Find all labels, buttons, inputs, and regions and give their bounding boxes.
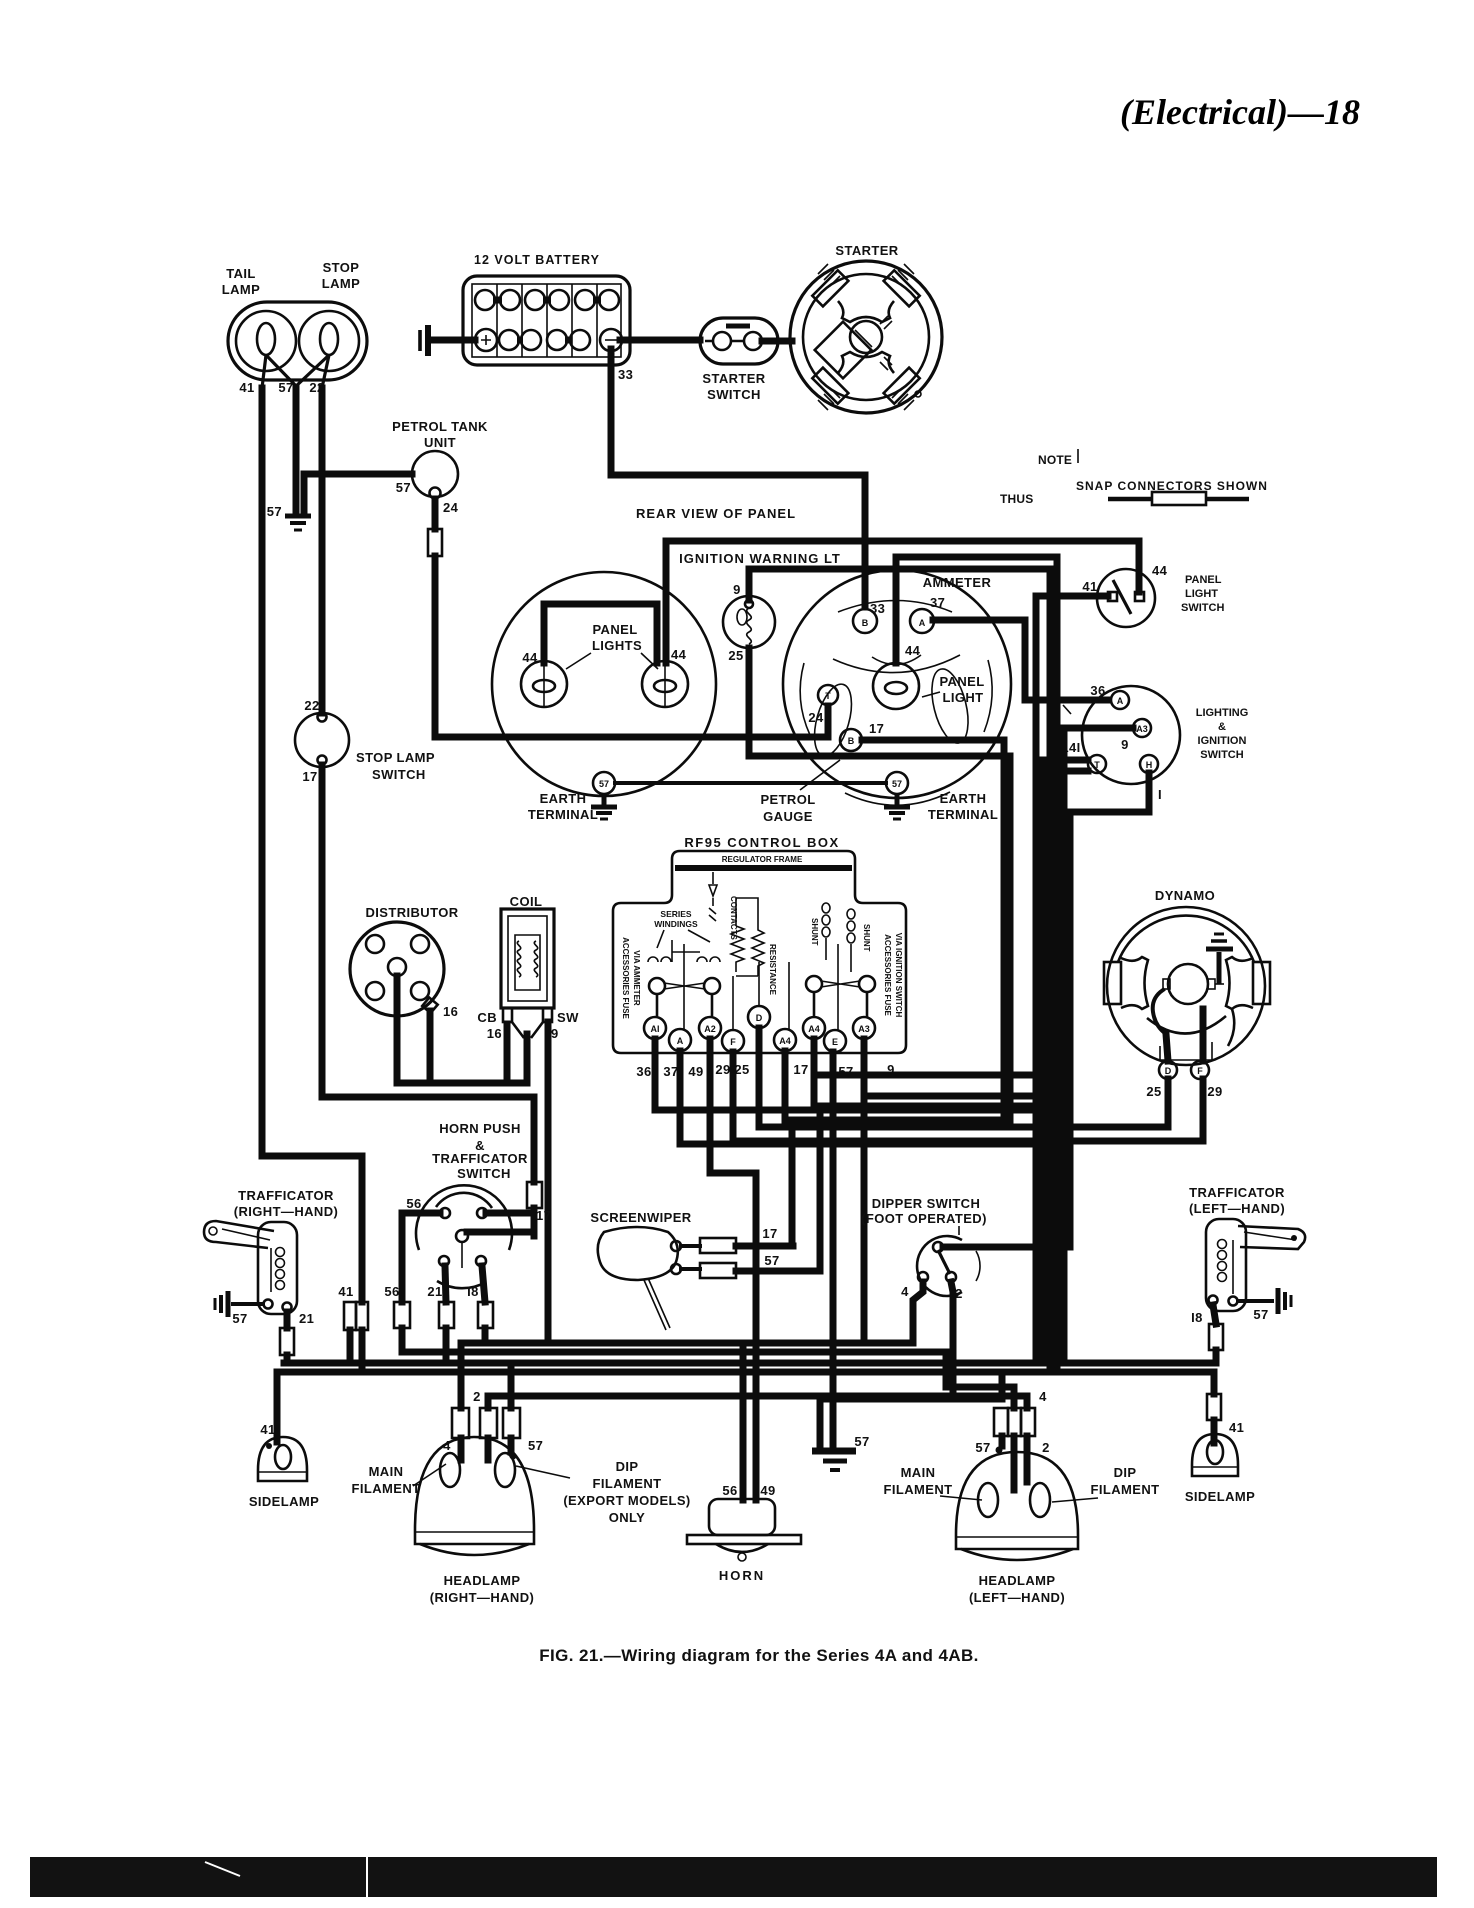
wire E down to earth	[830, 1052, 837, 1450]
headlamp left	[884, 1452, 1160, 1605]
bus 1396	[488, 1396, 1027, 1408]
svg-text:(Electrical)—18: (Electrical)—18	[1120, 92, 1360, 132]
terminal A 37	[910, 595, 945, 633]
svg-text:49: 49	[688, 1064, 703, 1079]
wire A4b down	[814, 1039, 1050, 1106]
svg-text:(LEFT—HAND): (LEFT—HAND)	[1189, 1201, 1285, 1216]
earth terminal right	[884, 772, 998, 822]
control box terminal A	[663, 1029, 691, 1079]
svg-text:36: 36	[636, 1064, 651, 1079]
screenwiper	[590, 1210, 691, 1330]
svg-text:57: 57	[528, 1438, 543, 1453]
svg-text:WINDINGS: WINDINGS	[654, 919, 698, 929]
svg-text:12 VOLT BATTERY: 12 VOLT BATTERY	[474, 253, 600, 267]
svg-text:57: 57	[396, 480, 411, 495]
wire dipper 2	[951, 1282, 953, 1396]
svg-text:(LEFT—HAND): (LEFT—HAND)	[969, 1590, 1065, 1605]
svg-text:PANEL: PANEL	[939, 674, 984, 689]
terminal B 17	[840, 721, 884, 751]
svg-text:44: 44	[1152, 563, 1168, 578]
wire 4 headlamp right	[458, 1343, 465, 1408]
wire screenwiper 57 riser	[817, 1106, 824, 1271]
wire D down	[759, 1028, 1168, 1127]
panel light switch	[1082, 563, 1224, 627]
note snap connectors	[1000, 449, 1268, 506]
svg-text:HORN PUSH: HORN PUSH	[439, 1121, 521, 1136]
dipper switch	[861, 1196, 987, 1301]
svg-text:22: 22	[304, 698, 319, 713]
svg-text:STOP: STOP	[323, 260, 360, 275]
svg-text:36: 36	[1090, 683, 1105, 698]
svg-text:17: 17	[793, 1062, 808, 1077]
svg-text:2: 2	[473, 1389, 481, 1404]
svg-text:STOP LAMP: STOP LAMP	[356, 750, 435, 765]
wire 17 below connector	[467, 1208, 534, 1236]
svg-text:REGULATOR FRAME: REGULATOR FRAME	[722, 855, 803, 864]
connector screenwiper 17	[700, 1238, 736, 1253]
panel light left	[521, 650, 567, 707]
svg-text:IGNITION WARNING LT: IGNITION WARNING LT	[679, 551, 841, 566]
wire dipper 1	[943, 1244, 1070, 1251]
svg-text:DIP: DIP	[1114, 1465, 1137, 1480]
svg-text:TRAFFICATOR: TRAFFICATOR	[432, 1151, 528, 1166]
svg-text:LIGHT: LIGHT	[1185, 588, 1218, 600]
svg-text:57: 57	[1253, 1307, 1268, 1322]
dipper 2 to headlamp left wiring / connector left headlamp	[975, 1389, 1049, 1490]
svg-text:24: 24	[808, 710, 824, 725]
svg-text:37: 37	[663, 1064, 678, 1079]
svg-text:VIA IGNITION SWITCH: VIA IGNITION SWITCH	[894, 933, 903, 1018]
panel light right	[642, 647, 688, 707]
wire H to dipper	[1070, 773, 1149, 1247]
svg-text:ACCESSORIES FUSE: ACCESSORIES FUSE	[621, 937, 630, 1019]
connector 24	[428, 529, 442, 556]
connector 17	[527, 1182, 542, 1208]
connector 21	[439, 1302, 454, 1328]
svg-text:37: 37	[930, 595, 945, 610]
svg-text:E: E	[832, 1037, 838, 1047]
svg-text:9: 9	[551, 1026, 559, 1041]
svg-text:41: 41	[338, 1284, 353, 1299]
horn push trafficator switch	[406, 1185, 551, 1288]
wires into headlamp right	[461, 1438, 511, 1460]
svg-text:44: 44	[522, 650, 538, 665]
wire 57 earth link	[615, 781, 886, 785]
wire 21 trafficator right	[284, 1312, 291, 1328]
svg-text:25: 25	[728, 648, 743, 663]
svg-text:PANEL: PANEL	[1185, 574, 1222, 586]
headlamp right connectors	[452, 1408, 469, 1438]
svg-text:41: 41	[1082, 579, 1097, 594]
svg-text:SERIES: SERIES	[660, 909, 692, 919]
svg-text:17: 17	[536, 1208, 551, 1223]
svg-text:FILAMENT: FILAMENT	[593, 1476, 662, 1491]
control box terminal A1	[636, 1017, 666, 1079]
wire 17 panel B to bundle	[862, 740, 1004, 1120]
svg-text:9: 9	[733, 582, 741, 597]
svg-text:RESISTANCE: RESISTANCE	[768, 944, 777, 996]
wire 44 panel lights to panel light switch	[666, 541, 1139, 663]
svg-text:FILAMENT: FILAMENT	[1091, 1482, 1160, 1497]
svg-text:STARTER: STARTER	[702, 371, 765, 386]
svg-text:44: 44	[671, 647, 687, 662]
terminal T 24	[808, 685, 838, 725]
wire 33 battery to ammeter B	[611, 349, 865, 607]
wire dipper 4	[913, 1282, 923, 1341]
dynamo	[1104, 888, 1270, 1099]
svg-text:57: 57	[267, 504, 282, 519]
connector 41 double	[344, 1302, 356, 1330]
wire 21 horn push	[445, 1266, 446, 1302]
svg-text:LAMP: LAMP	[222, 282, 260, 297]
svg-text:(EXPORT MODELS): (EXPORT MODELS)	[563, 1493, 690, 1508]
svg-text:25: 25	[1146, 1084, 1161, 1099]
svg-text:I: I	[1158, 787, 1162, 802]
wire 57 petrol tank to earth	[304, 474, 412, 514]
svg-text:SWITCH: SWITCH	[1200, 749, 1243, 761]
nest horizontal upper	[814, 1072, 1068, 1079]
svg-text:TAIL: TAIL	[226, 266, 256, 281]
control box terminal E	[824, 1030, 854, 1079]
svg-text:TERMINAL: TERMINAL	[528, 807, 598, 822]
svg-text:4: 4	[1039, 1389, 1047, 1404]
svg-text:A2: A2	[704, 1024, 716, 1034]
bus 1352	[402, 1352, 1014, 1408]
starter switch	[700, 318, 778, 402]
svg-text:57: 57	[764, 1253, 779, 1268]
wire sidelamp left	[274, 1372, 281, 1442]
svg-text:&: &	[1218, 721, 1226, 733]
svg-text:56: 56	[384, 1284, 399, 1299]
bundle vertical 44	[1054, 557, 1061, 1372]
svg-text:PETROL: PETROL	[760, 792, 815, 807]
wire 17 screenwiper	[681, 1244, 700, 1248]
svg-text:B: B	[862, 618, 869, 628]
RF95 control box	[613, 835, 906, 1053]
svg-text:LAMP: LAMP	[322, 276, 360, 291]
wire 37 ammeter A to lighting switch	[933, 620, 1108, 700]
svg-text:TRAFFICATOR: TRAFFICATOR	[1189, 1185, 1285, 1200]
svg-text:A3: A3	[858, 1024, 870, 1034]
svg-text:A: A	[677, 1036, 684, 1046]
wire F down	[733, 1052, 1203, 1141]
svg-text:A: A	[919, 618, 926, 628]
svg-text:HORN: HORN	[719, 1568, 765, 1583]
wire 57 screenwiper	[681, 1267, 700, 1271]
wire 56 horn push	[402, 1213, 440, 1302]
wire 57 trafficator left earth	[1238, 1299, 1272, 1303]
ignition warning light	[723, 582, 775, 663]
wire screenwiper 17 riser	[789, 1120, 796, 1246]
svg-text:F: F	[730, 1037, 736, 1047]
distributor	[350, 905, 459, 1019]
svg-text:57: 57	[975, 1440, 990, 1455]
svg-text:33: 33	[870, 601, 885, 616]
svg-text:IGNITION: IGNITION	[1198, 735, 1247, 747]
svg-text:DYNAMO: DYNAMO	[1155, 888, 1215, 903]
svg-text:HEADLAMP: HEADLAMP	[444, 1573, 521, 1588]
svg-text:EARTH: EARTH	[540, 791, 587, 806]
wire 41 tail lamp down to trafficator connector	[262, 388, 362, 1302]
wire dynamo D	[1166, 1034, 1168, 1127]
connector 21 trafficator	[280, 1328, 294, 1355]
connector 18 trafficator left	[1209, 1324, 1223, 1350]
svg-text:ACCESSORIES FUSE: ACCESSORIES FUSE	[883, 934, 892, 1016]
svg-text:57: 57	[892, 779, 902, 789]
svg-text:24: 24	[443, 500, 459, 515]
control box terminal A4	[774, 1029, 809, 1077]
petrol gauge label	[760, 760, 840, 824]
wire T double 141	[1043, 760, 1088, 1363]
bundle vertical 9	[1047, 569, 1054, 771]
wire 9 warning light to bundle	[749, 569, 1050, 600]
svg-text:A: A	[1117, 696, 1124, 706]
svg-text:(FOOT OPERATED): (FOOT OPERATED)	[861, 1211, 987, 1226]
svg-text:16: 16	[487, 1026, 502, 1041]
svg-text:57: 57	[278, 380, 293, 395]
svg-text:A4: A4	[808, 1024, 820, 1034]
bus 1341	[461, 1340, 913, 1347]
footer black bar	[30, 1857, 1437, 1897]
svg-text:MAIN: MAIN	[901, 1465, 936, 1480]
svg-text:29: 29	[1207, 1084, 1222, 1099]
wire A down	[680, 1051, 1043, 1144]
tail lamp / stop lamp unit	[222, 260, 367, 380]
wire 17 stop lamp switch to horn push	[322, 765, 534, 1182]
speedometer panel circle	[492, 572, 716, 796]
svg-text:SWITCH: SWITCH	[707, 387, 761, 402]
bus 1363	[284, 1360, 1216, 1367]
svg-text:I8: I8	[467, 1284, 479, 1299]
wire 41 panel light switch	[1036, 596, 1108, 1363]
wire 18 horn push	[482, 1266, 485, 1302]
svg-text:41: 41	[1229, 1420, 1244, 1435]
svg-text:D: D	[1165, 1066, 1172, 1076]
ground lamp earth	[267, 504, 311, 530]
lighting and ignition switch	[1061, 683, 1248, 802]
control box terminal A2	[688, 1017, 721, 1079]
svg-text:DIP: DIP	[616, 1459, 639, 1474]
ground battery	[420, 325, 428, 356]
wire 57 headlamp right	[508, 1363, 515, 1408]
svg-text:T: T	[825, 691, 831, 701]
svg-text:49: 49	[760, 1483, 775, 1498]
svg-text:SCREENWIPER: SCREENWIPER	[590, 1210, 691, 1225]
svg-text:SIDELAMP: SIDELAMP	[249, 1494, 319, 1509]
connector 56	[394, 1302, 410, 1328]
svg-text:SWITCH: SWITCH	[457, 1166, 511, 1181]
svg-text:57: 57	[599, 779, 609, 789]
wire 57 lamp earth	[293, 388, 300, 514]
svg-text:2: 2	[1042, 1440, 1050, 1455]
svg-text:ONLY: ONLY	[609, 1510, 646, 1525]
ammeter panel light	[873, 643, 985, 709]
wire A4 down	[785, 1051, 1004, 1120]
wire 24 petrol tank down	[432, 499, 439, 529]
earth terminal left	[528, 772, 617, 822]
svg-text:4: 4	[901, 1284, 909, 1299]
wire CB	[504, 1024, 511, 1083]
connector screenwiper 57	[700, 1263, 736, 1278]
svg-text:FILAMENT: FILAMENT	[352, 1481, 421, 1496]
wire A3	[1064, 728, 1133, 1363]
svg-text:F: F	[1197, 1066, 1203, 1076]
svg-text:SHUNT: SHUNT	[862, 924, 871, 952]
wire 25 warning light down	[749, 648, 1010, 1127]
svg-text:H: H	[1146, 760, 1153, 770]
svg-text:AI: AI	[651, 1024, 660, 1034]
wire 24 to panel T terminal	[435, 556, 828, 737]
wire 18 trafficator left	[1213, 1305, 1216, 1324]
horn	[687, 1343, 801, 1583]
svg-text:29: 29	[715, 1062, 730, 1077]
svg-text:A4: A4	[779, 1036, 791, 1046]
svg-text:41: 41	[239, 380, 254, 395]
wire A1 down	[655, 1039, 1036, 1110]
wire 57 trafficator right earth	[233, 1302, 263, 1306]
svg-text:SWITCH: SWITCH	[1181, 602, 1224, 614]
wire starter switch to starter	[762, 338, 792, 345]
wire A2 down to 49 horn	[710, 1039, 756, 1500]
sidelamp left	[249, 1422, 319, 1509]
svg-text:THUS: THUS	[1000, 492, 1033, 506]
wire A3 down to bus	[861, 1039, 868, 1343]
svg-text:REAR VIEW OF PANEL: REAR VIEW OF PANEL	[636, 506, 796, 521]
svg-text:DIPPER SWITCH: DIPPER SWITCH	[872, 1196, 980, 1211]
coil	[477, 894, 579, 1041]
svg-text:25: 25	[734, 1062, 749, 1077]
svg-text:FILAMENT: FILAMENT	[884, 1482, 953, 1497]
svg-text:DISTRIBUTOR: DISTRIBUTOR	[366, 905, 459, 920]
svg-text:LIGHTING: LIGHTING	[1196, 707, 1249, 719]
svg-text:44: 44	[905, 643, 921, 658]
svg-text:B: B	[848, 736, 855, 746]
svg-text:SW: SW	[557, 1010, 579, 1025]
svg-text:33: 33	[618, 367, 633, 382]
headlamp right	[352, 1437, 691, 1605]
wire distributor centre HT	[397, 976, 527, 1083]
svg-text:LIGHTS: LIGHTS	[592, 638, 642, 653]
svg-text:TERMINAL: TERMINAL	[928, 807, 998, 822]
battery earth lead	[434, 337, 475, 344]
svg-text:I8: I8	[1191, 1310, 1203, 1325]
bus 1372	[277, 1369, 1214, 1376]
svg-text:VIA AMMETER: VIA AMMETER	[632, 950, 641, 1006]
svg-text:PETROL TANK: PETROL TANK	[392, 419, 488, 434]
svg-text:UNIT: UNIT	[424, 435, 456, 450]
svg-text:A3: A3	[1136, 724, 1148, 734]
wire 22 to stop lamp switch	[319, 388, 326, 713]
sidelamp right wire	[1211, 1372, 1218, 1394]
svg-text:D: D	[756, 1013, 763, 1023]
svg-text:TRAFFICATOR: TRAFFICATOR	[238, 1188, 334, 1203]
svg-text:CB: CB	[477, 1010, 497, 1025]
svg-text:STARTER: STARTER	[835, 243, 898, 258]
svg-text:SHUNT: SHUNT	[810, 918, 819, 946]
svg-text:17: 17	[762, 1226, 777, 1241]
svg-text:9: 9	[1121, 737, 1129, 752]
svg-text:PANEL: PANEL	[592, 622, 637, 637]
wire panel lights link	[544, 604, 657, 663]
wire battery to starter switch	[620, 337, 700, 344]
wire 44 ammeter panel light	[896, 557, 1057, 663]
svg-text:RF95 CONTROL BOX: RF95 CONTROL BOX	[684, 835, 839, 850]
svg-text:21: 21	[427, 1284, 442, 1299]
nest horizontal mid	[864, 1093, 1044, 1100]
svg-text:57: 57	[854, 1434, 869, 1449]
control box terminal D	[734, 1006, 770, 1077]
control box terminal A4 second	[803, 1017, 825, 1039]
connector 18	[478, 1302, 493, 1328]
battery	[463, 253, 630, 365]
sidelamp right	[1185, 1434, 1255, 1504]
svg-text:COIL: COIL	[510, 894, 543, 909]
trafficator left hand	[1189, 1185, 1305, 1311]
svg-text:T: T	[1094, 760, 1100, 770]
control box terminal A3	[853, 1017, 895, 1077]
svg-text:(RIGHT—HAND): (RIGHT—HAND)	[234, 1204, 338, 1219]
wire SW 9 down to bus	[545, 1022, 552, 1343]
connector 41 sidelamp right	[1207, 1394, 1221, 1420]
control box terminal F	[715, 1030, 744, 1077]
panel lights label	[566, 622, 658, 669]
svg-text:41: 41	[260, 1422, 275, 1437]
svg-text:HEADLAMP: HEADLAMP	[979, 1573, 1056, 1588]
trafficator right hand	[204, 1188, 338, 1314]
svg-text:GAUGE: GAUGE	[763, 809, 813, 824]
terminal B 33	[853, 601, 885, 633]
svg-text:MAIN: MAIN	[369, 1464, 404, 1479]
petrol tank unit	[392, 419, 488, 515]
svg-text:16: 16	[443, 1004, 458, 1019]
svg-text:LIGHT: LIGHT	[943, 690, 984, 705]
ammeter / petrol gauge instrument	[783, 570, 1011, 805]
svg-text:FIG. 21.—Wiring diagram for th: FIG. 21.—Wiring diagram for the Series 4…	[539, 1646, 979, 1665]
svg-text:17: 17	[869, 721, 884, 736]
middle earth 57	[812, 1372, 1002, 1470]
svg-text:(RIGHT—HAND): (RIGHT—HAND)	[430, 1590, 534, 1605]
svg-text:17: 17	[302, 769, 317, 784]
wire dynamo F	[1200, 1009, 1207, 1141]
svg-text:SWITCH: SWITCH	[372, 767, 426, 782]
lamp lead-in wires	[239, 355, 329, 395]
svg-text:56: 56	[722, 1483, 737, 1498]
svg-text:SIDELAMP: SIDELAMP	[1185, 1489, 1255, 1504]
svg-text:57: 57	[232, 1311, 247, 1326]
wire 16 distributor	[427, 1011, 434, 1083]
stop lamp switch	[295, 698, 435, 784]
horn push and trafficator switch label	[432, 1121, 528, 1181]
svg-text:AMMETER: AMMETER	[923, 575, 992, 590]
svg-text:NOTE: NOTE	[1038, 453, 1072, 467]
svg-text:21: 21	[299, 1311, 314, 1326]
svg-text:56: 56	[406, 1196, 421, 1211]
starter	[790, 243, 942, 413]
